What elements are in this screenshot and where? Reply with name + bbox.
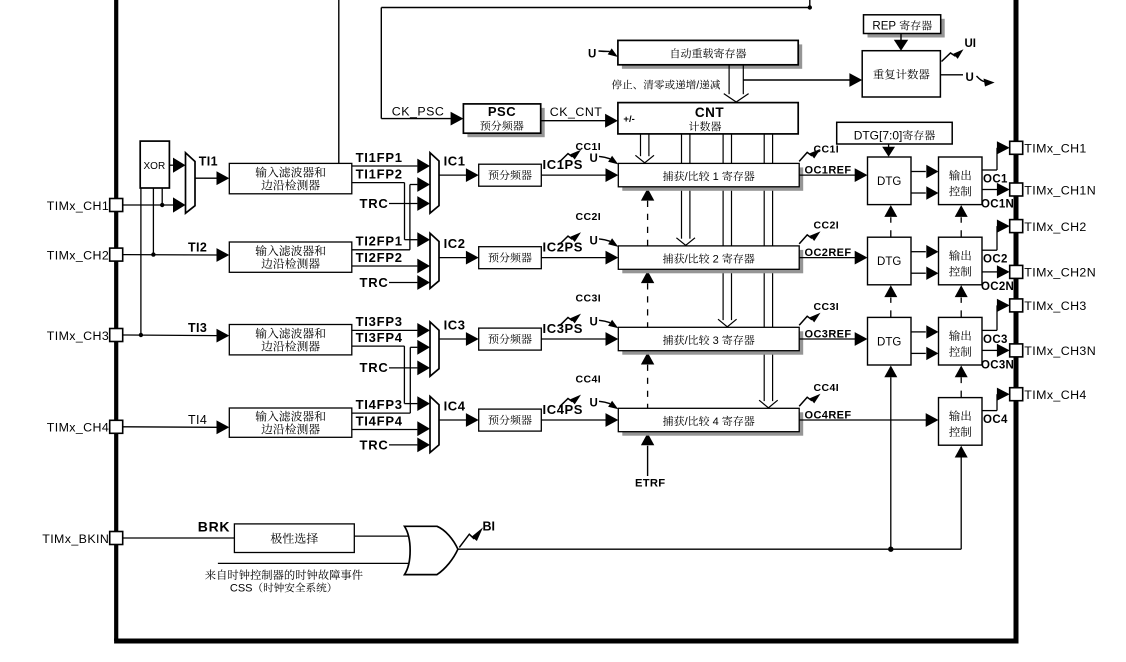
event arrow U into auto-reload [599,48,618,57]
arrows DTG1 to output control [911,165,939,200]
wire IC2PS to capture/compare [541,251,618,265]
pad TIMx_CH3 on chip boundary [110,329,123,342]
svg-text:BI: BI [483,520,496,534]
wire BI to DTG and output control [458,547,961,552]
label TI2 [188,241,207,255]
label CK_CNT [550,105,603,119]
pad TIMx_CH1 on chip boundary [110,199,123,212]
block input filter & edge detector 4 [229,408,351,437]
pad TIMx_CH1 on chip boundary [1010,141,1023,154]
label 控制 3 [949,346,971,357]
event zigzag UI [942,49,964,61]
wire TI3 from pad to input filter 3 [123,329,230,343]
svg-text:OC3N: OC3N [981,359,1014,371]
wire from trigger controller to input filter 1 [338,0,340,163]
label 重复计数器 [873,69,929,80]
wire polarity select to OR gate [354,535,411,537]
block DTG[7:0] register [837,122,953,144]
wire update to repetition counter [743,79,850,81]
label U row 4 [590,398,598,410]
svg-text:XOR: XOR [144,161,166,172]
wire break up to DTG3 [884,366,897,550]
event zigzag CC1I left [560,150,582,162]
block input filter & edge detector 2 [229,242,351,272]
label TI4FP3 [356,397,403,412]
block input filter & edge detector 1 [229,163,351,193]
svg-text:BRK: BRK [198,519,230,535]
mux TI1 selector [186,153,196,214]
label TI4FP4 [356,413,403,428]
label 捕获/比较 1 寄存器 [663,171,755,183]
block prescaler 预分频器 3 [479,328,542,350]
pad TIMx_CH2 on chip boundary [1010,220,1023,233]
svg-text:TIMx_CH4: TIMx_CH4 [47,421,109,435]
arrow into pad TIMx_CH3N [997,344,1010,357]
wire IC2 to prescaler [439,251,479,265]
label OC1 [983,174,1008,186]
event arrow U row 3 [599,320,618,329]
wire IC3 to prescaler [439,332,479,346]
arrow into pad TIMx_CH1N [997,183,1010,196]
label OC4REF [805,409,852,421]
event zigzag CC4I left [560,395,582,407]
svg-text:IC3: IC3 [444,317,466,332]
mux IC4 selector [430,396,439,452]
wire IC1PS to capture/compare [541,168,618,182]
block DTG 2 [868,237,912,285]
label TI1FP2 [356,166,403,181]
block output control 2 输出控制 [939,237,983,285]
label TIMx_CH4 left [47,421,109,435]
label U row 3 [590,317,598,329]
svg-text:1: 1 [710,171,722,183]
wire CK_PSC from trigger controller [381,8,452,119]
wire TIMx_CH1 to TI1 mux [123,197,186,212]
svg-text:CC4I: CC4I [576,373,602,385]
arrows DTG2 to output control [911,245,939,280]
arrow into pad TIMx_CH2 [997,220,1010,233]
svg-text:TIMx_CH1: TIMx_CH1 [1024,142,1086,156]
wire IC3PS to capture/compare [541,332,618,346]
label IC4 [444,398,466,413]
svg-text:OC2N: OC2N [981,281,1014,293]
label 预分频器 3 [488,334,531,344]
arrow into repetition counter [849,73,862,87]
wire TI3FP3 [352,323,430,338]
label 极性选择 [271,533,318,544]
pad TIMx_CH2 on chip boundary [110,248,123,261]
label 输入滤波器和 4 [255,411,325,422]
svg-text:TI1FP2: TI1FP2 [356,166,403,181]
block prescaler 预分频器 1 [479,164,542,186]
label TIMx_CH3 right [1024,299,1086,313]
pad TIMx_CH4 on chip boundary [1010,388,1023,401]
arrow into PSC [451,112,464,126]
pad TIMx_CH3N on chip boundary [1010,344,1023,357]
label TI3FP4 [356,330,403,345]
event arrow U row 4 [599,401,618,410]
label OC3REF [805,328,852,340]
label OC2N [981,281,1014,293]
label TRC 4 [360,438,389,453]
label TIMx_BKIN left [42,532,109,546]
svg-text:4: 4 [710,416,722,428]
svg-text:OC4: OC4 [983,414,1008,426]
event zigzag CC4I right [799,394,820,407]
svg-text:OC1: OC1 [983,174,1008,186]
svg-text:TIMx_BKIN: TIMx_BKIN [42,532,109,546]
label 边沿检测器 3 [261,341,319,352]
label 自动重载寄存器 [672,48,747,58]
ETRF dashed segment 3 and arrow into capture/compare 3 [641,352,654,408]
label TRC 1 [360,196,389,211]
label 捕获/比较 2 寄存器 [663,253,755,265]
wire clock failure event to OR gate [218,562,414,564]
label TIMx_CH1 left [47,199,109,213]
event zigzag CC3I right [799,313,820,326]
svg-text:TIMx_CH4: TIMx_CH4 [1024,388,1086,402]
label 捕获/比较 3 寄存器 [663,335,755,347]
chip boundary left line [114,0,118,641]
label TIMx_CH3N right [1024,344,1096,358]
svg-text:REP: REP [872,21,899,33]
label U row 1 [590,153,598,165]
svg-text:OC2: OC2 [983,254,1008,266]
label CC4I left [576,373,602,385]
label 输入滤波器和 2 [255,245,325,256]
mux IC3 selector [430,322,439,376]
block capture/compare 3 register [618,327,803,354]
svg-text:TIMx_CH2: TIMx_CH2 [47,248,109,262]
svg-text:TI2: TI2 [188,241,207,255]
label 输出 2 [949,250,971,261]
svg-text:TIMx_CH3: TIMx_CH3 [47,329,109,343]
dashed break OC4 to OC3 [955,366,968,398]
label TI3 [188,321,207,335]
label UI [965,38,977,50]
label IC2 [444,236,466,251]
label OC4 [983,414,1008,426]
wire TRC into IC3 mux [389,361,430,376]
svg-text:TIMx_CH3: TIMx_CH3 [1024,299,1086,313]
label OC2REF [805,247,852,259]
wire TI1FP2 down to IC2 mux [352,183,430,248]
svg-text:TIMx_CH2: TIMx_CH2 [1024,220,1086,234]
mux IC1 selector [430,153,439,214]
block DTG 3 [868,317,912,365]
svg-text:CC3I: CC3I [814,301,840,313]
label TIMx_CH4 right [1024,388,1086,402]
hollow arrow CNT to capture/compare 3 [718,134,737,327]
label ETRF [635,477,665,489]
label CNT 计数器 [689,121,721,131]
label TI1FP1 [356,150,403,165]
svg-text:CC4I: CC4I [814,382,840,394]
svg-text:CC2I: CC2I [814,219,840,231]
svg-text:CNT: CNT [695,105,724,120]
ETRF dashed segment 2 and arrow into capture/compare 2 [641,271,654,328]
pad TIMx_BKIN on chip boundary [110,532,123,545]
block input filter & edge detector 3 [229,325,351,355]
wire OC3N to pad [982,349,998,351]
wire TI4FP4 [352,421,430,436]
label IC4PS [543,402,584,417]
svg-text:CC2I: CC2I [576,211,602,223]
ETRF dashed line segment 1 and arrow into capture/compare 1 [641,188,654,246]
label 输出 3 [949,330,971,341]
label TIMx_CH2N right [1024,266,1096,280]
wire OC1 to pad [982,148,998,170]
svg-text:TRC: TRC [360,196,389,211]
label 输入滤波器和 1 [255,167,325,178]
label CC2I left [576,211,602,223]
svg-text:CSS: CSS [230,583,253,595]
label CNT [695,105,724,120]
label 控制 2 [949,266,971,277]
wire OC4 to pad [982,394,998,410]
svg-text:TI4FP3: TI4FP3 [356,397,403,412]
label 边沿检测器 2 [261,258,319,269]
label XOR [144,161,166,172]
block capture/compare 1 register [618,163,803,190]
arrow into pad TIMx_CH4 [997,388,1010,401]
wire TRC into IC2 mux [389,275,430,290]
label TRC 2 [360,275,389,290]
svg-text:OC3: OC3 [983,334,1008,346]
label IC3 [444,317,466,332]
label CC1I left [576,141,602,153]
wire OC3 to pad [982,305,998,330]
wire CK_CNT [541,120,606,122]
arrow into pad TIMx_CH3 [997,299,1010,312]
label TI2FP1 [356,234,403,249]
label 边沿检测器 1 [261,179,319,190]
label IC2PS [543,240,584,255]
label TIMx_CH2 right [1024,220,1086,234]
svg-text:IC4: IC4 [444,398,466,413]
block PSC prescaler [463,104,544,137]
svg-text:CK_CNT: CK_CNT [550,105,603,119]
block output control 4 输出控制 [939,398,983,446]
ETRF solid stem and arrow into capture/compare 4 [641,433,654,476]
label TIMx_CH2 left [47,248,109,262]
label 边沿检测器 4 [261,423,319,434]
label CK_PSC [392,104,445,118]
label U at auto-reload [588,49,596,61]
svg-text:OC1N: OC1N [981,199,1014,211]
svg-text:TIMx_CH2N: TIMx_CH2N [1024,266,1096,280]
svg-text:+/-: +/- [623,114,634,125]
label DTG[7:0]寄存器 [854,128,935,142]
label BI [483,520,496,534]
label 输出 4 [949,410,971,421]
label +/- [623,114,634,125]
svg-text:TI4FP4: TI4FP4 [356,413,403,428]
event zigzag CC3I left [560,314,582,326]
block DTG 1 [868,157,912,205]
label IC1 [444,153,466,168]
wire TI1 into input filter 1 [195,171,229,185]
block repetition counter 重复计数器 [862,51,940,97]
arrow into pad TIMx_CH2N [997,265,1010,278]
label TIMx_CH1 right [1024,142,1086,156]
wire OC3REF [799,332,867,346]
pad TIMx_CH2N on chip boundary [1010,265,1023,278]
svg-text:TI1: TI1 [199,154,218,168]
label U row 2 [590,235,598,247]
label IC1PS [543,157,584,172]
label OC3N [981,359,1014,371]
block REP register [864,15,945,38]
chip boundary bottom line [114,639,1018,644]
svg-text:CK_PSC: CK_PSC [392,104,445,118]
svg-text:3: 3 [710,335,722,347]
svg-text:TIMx_CH1N: TIMx_CH1N [1024,183,1096,197]
svg-text:TI3: TI3 [188,321,207,335]
svg-text:TI1FP1: TI1FP1 [356,150,403,165]
svg-text:TI4: TI4 [188,413,207,427]
svg-text:U: U [590,398,598,410]
wire IC4 to prescaler [439,413,479,427]
svg-text:TRC: TRC [360,275,389,290]
svg-text:IC2: IC2 [444,236,466,251]
trigger-controller box bottom edge (cut off at top) [381,0,812,10]
wire TI1FP1 [352,159,430,174]
label 预分频器 2 [488,252,531,262]
arrow into pad TIMx_CH1 [997,141,1010,154]
svg-text:TRC: TRC [360,438,389,453]
svg-text:U: U [966,72,974,84]
label TIMx_CH3 left [47,329,109,343]
block output control 3 输出控制 [939,317,983,365]
mux IC2 selector [430,233,439,288]
label OC3 [983,334,1008,346]
label 捕获/比较 4 寄存器 [663,416,755,428]
label U out [966,72,974,84]
dashed break DTG3 to DTG2 [884,285,897,317]
svg-text:TI2FP2: TI2FP2 [356,250,403,265]
event zigzag CC2I right [799,231,820,244]
svg-text:PSC: PSC [488,104,516,119]
label DTG 3 [877,336,901,348]
label 来自时钟控制器的时钟故障事件 [205,569,362,580]
wire XOR inputs from CH1 CH2 CH3 [139,188,165,337]
svg-text:DTG: DTG [877,176,901,188]
wire TIMx_BKIN to polarity select [123,537,235,539]
wire IC4PS to capture/compare [541,413,618,427]
arrows DTG3 to output control [911,325,939,360]
arrow into CNT [605,114,618,128]
arrow DTG register to DTG1 [882,144,895,157]
hollow arrow CNT to capture/compare 1 [635,134,654,163]
wire TI2 from pad to input filter 2 [123,248,230,262]
event zigzag CC1I right [799,149,820,162]
wire IC1 to prescaler [439,168,479,182]
hollow arrow CNT to capture/compare 2 [676,134,695,246]
wire OC2REF [799,251,867,265]
svg-text:ETRF: ETRF [635,477,665,489]
label 输入滤波器和 3 [255,328,325,339]
label TRC 3 [360,360,389,375]
label 输出 1 [949,170,971,181]
dashed break DTG2 to DTG1 [884,205,897,237]
label PSC 预分频器 [480,121,523,131]
svg-text:TI3FP3: TI3FP3 [356,314,403,329]
block capture/compare 4 register [618,408,803,435]
event zigzag BI [459,527,483,547]
event arrow U row 1 [599,156,618,165]
pad TIMx_CH4 on chip boundary [110,420,123,433]
svg-text:IC1: IC1 [444,153,466,168]
label 预分频器 1 [488,170,531,180]
event arrow U row 2 [599,238,618,247]
wire TI4FP3 up to IC3 mux [352,340,430,413]
svg-text:U: U [590,153,598,165]
label CC3I left [576,292,602,304]
block capture/compare 2 register [618,246,803,273]
label TI4 [188,413,207,427]
svg-text:U: U [590,235,598,247]
label DTG 1 [877,176,901,188]
wire break up to output control 4 [955,446,968,550]
wire TI2FP1 up to IC1 mux [352,177,430,250]
hollow arrow CNT to capture/compare 4 [759,134,778,408]
label PSC [488,104,516,119]
wire OC2N to pad [982,271,998,273]
label 停止、清零或递增/递减 [612,80,720,92]
wire XOR output to TI1 mux [169,158,185,173]
svg-text:TRC: TRC [360,360,389,375]
chip boundary right line [1014,0,1019,641]
svg-text:U: U [590,317,598,329]
block CNT counter [618,103,798,134]
label TI1 [199,154,218,168]
svg-text:/: / [696,80,699,92]
block prescaler 预分频器 2 [479,247,542,269]
svg-text:DTG: DTG [877,336,901,348]
label TI3FP3 [356,314,403,329]
block polarity select 极性选择 [234,524,354,553]
label REP 寄存器 [872,20,932,32]
label TIMx_CH1N right [1024,183,1096,197]
svg-text:CC3I: CC3I [576,292,602,304]
wire OC1REF [799,168,867,182]
label 控制 4 [949,426,971,437]
svg-text:DTG[7:0]: DTG[7:0] [854,128,903,142]
pad TIMx_CH3 on chip boundary [1010,299,1023,312]
svg-text:DTG: DTG [877,256,901,268]
label 预分频器 4 [488,415,531,425]
label IC3PS [543,321,584,336]
svg-text:TIMx_CH1: TIMx_CH1 [47,199,109,213]
event zigzag CC2I left [560,232,582,244]
label BRK [198,519,230,535]
label CSS（时钟安全系统） [230,583,330,595]
label CC2I right [814,219,840,231]
dashed break OC2 to OC1 [955,205,968,237]
wire OC1N to pad [982,189,998,191]
wire U out of repetition counter [940,74,963,76]
label CC1I right [814,144,840,156]
block output control 1 输出控制 [939,157,983,205]
block prescaler 预分频器 4 [479,409,542,431]
label 控制 1 [949,186,971,197]
block auto-reload register [618,40,802,68]
wire OC4REF [799,413,938,427]
event arrow U out [977,76,995,87]
svg-text:TI3FP4: TI3FP4 [356,330,403,345]
svg-text:TI2FP1: TI2FP1 [356,234,403,249]
